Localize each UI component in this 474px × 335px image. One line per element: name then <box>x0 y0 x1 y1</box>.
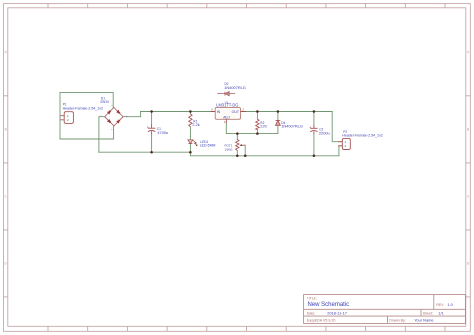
node R2 top <box>256 110 259 113</box>
LED1 <box>188 140 197 145</box>
svg-text:TITLE:: TITLE: <box>307 296 317 300</box>
node wiper bottom <box>244 155 247 158</box>
wire D4 branch <box>277 112 279 134</box>
title block <box>304 295 466 324</box>
svg-text:Header-Female-2.54_1x2: Header-Female-2.54_1x2 <box>342 133 382 137</box>
svg-text:2W10: 2W10 <box>100 100 109 104</box>
svg-text:EasyEDA V5.9.20: EasyEDA V5.9.20 <box>307 319 336 323</box>
wire bridge minus down to bottom bus <box>99 117 105 153</box>
wire P2 pin1 drop <box>332 112 342 142</box>
node R2 bottom <box>256 132 259 135</box>
wire bridge plus to top bus <box>123 112 141 117</box>
capacitor C2 <box>310 125 317 134</box>
wire top bus to U1 IN <box>141 111 211 113</box>
svg-text:LED-5MM: LED-5MM <box>200 144 216 148</box>
svg-text:REV: REV <box>436 303 444 307</box>
svg-text:Sheet:: Sheet: <box>423 312 433 316</box>
wire POT1 wiper to bus <box>244 145 246 156</box>
capacitor C1 <box>148 125 155 134</box>
diode D2 (floating above U1) <box>217 92 235 96</box>
svg-text:LM317T-DG: LM317T-DG <box>216 103 238 108</box>
bridge rectifier D1 <box>105 108 123 126</box>
svg-text:B: B <box>467 128 469 132</box>
frame ticks top <box>48 4 445 8</box>
svg-text:+: + <box>126 115 128 119</box>
potentiometer POT1 <box>236 140 246 151</box>
frame ticks bottom <box>48 326 445 331</box>
svg-text:220: 220 <box>260 123 267 128</box>
svg-text:2200u: 2200u <box>319 131 330 136</box>
svg-text:1/1: 1/1 <box>438 311 443 316</box>
diode D4 <box>276 121 281 126</box>
wire POT1 branch <box>236 134 238 156</box>
node C2 top <box>313 110 316 113</box>
title block texts <box>307 296 444 322</box>
svg-text:+: + <box>147 125 149 129</box>
svg-text:OUT: OUT <box>232 110 240 114</box>
svg-text:~: ~ <box>111 104 113 108</box>
node POT1 bottom <box>236 155 239 158</box>
wire P1 left vertical <box>60 93 342 156</box>
wire bottom AC to bridge <box>60 126 114 139</box>
wire OUT bus <box>246 111 332 113</box>
wire P2 pin2 riser <box>339 146 342 156</box>
wire R1 to LED1 <box>189 112 191 153</box>
connector P1 <box>60 112 73 124</box>
node POT1 top <box>236 132 239 135</box>
svg-text:1N4007RLG: 1N4007RLG <box>224 85 246 90</box>
frame ticks right <box>466 96 470 297</box>
svg-text:New Schematic: New Schematic <box>308 302 350 308</box>
junction dots <box>150 110 315 157</box>
wire bottom bus left <box>99 151 190 153</box>
svg-text:Your Name: Your Name <box>414 318 433 323</box>
node C2 bottom <box>313 155 316 158</box>
op-amp U1 regulator LM317 <box>211 107 246 123</box>
svg-text:Drawn By:: Drawn By: <box>389 319 406 323</box>
wire C1 branch <box>151 112 153 153</box>
svg-text:1N4007RLG: 1N4007RLG <box>281 124 303 129</box>
wire R2 branch <box>256 112 258 134</box>
svg-text:+: + <box>309 126 311 130</box>
svg-text:Date:: Date: <box>307 312 316 316</box>
svg-text:Header-Female-2.54_1x2: Header-Female-2.54_1x2 <box>63 107 103 111</box>
connector P2 <box>338 138 350 149</box>
svg-text:2: 2 <box>67 118 69 122</box>
svg-text:-: - <box>100 113 101 117</box>
svg-text:2: 2 <box>345 144 347 148</box>
node D4 top <box>277 110 280 113</box>
svg-text:2.2k: 2.2k <box>192 122 199 127</box>
node C1 top <box>150 110 153 113</box>
frame ticks left <box>4 96 8 297</box>
svg-text:4700u: 4700u <box>157 130 168 135</box>
node LED1 bottom <box>189 151 192 154</box>
bridge polarity marks <box>100 104 127 131</box>
resistor R2 <box>256 119 259 129</box>
svg-text:IN: IN <box>217 110 221 114</box>
svg-text:B: B <box>5 128 7 132</box>
wire C2 branch <box>313 112 315 156</box>
svg-text:2018-11-17: 2018-11-17 <box>327 311 347 316</box>
node R1 top <box>189 110 192 113</box>
svg-text:~: ~ <box>111 127 113 131</box>
svg-text:10KΩ: 10KΩ <box>225 147 233 151</box>
node C1 bottom <box>150 151 153 154</box>
frame zone letters left <box>5 50 471 265</box>
resistor R1 <box>189 114 192 127</box>
wire ADJ rail <box>226 123 278 133</box>
svg-text:1.0: 1.0 <box>447 302 453 307</box>
wire top AC to bridge <box>60 93 113 108</box>
wire bottom bus step and right <box>190 152 339 156</box>
